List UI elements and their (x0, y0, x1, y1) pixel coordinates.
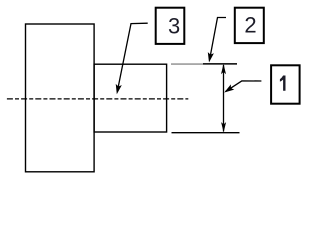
centerline (dash-dot axis) (7, 98, 188, 100)
leader for balloon 3 (118, 23, 148, 90)
leader for balloon 2 (210, 18, 226, 59)
balloon box 3 (156, 8, 185, 44)
leader 2 arrowhead (206, 52, 214, 63)
dimension arrowhead down (221, 122, 226, 132)
bottom extension line (172, 132, 240, 134)
svg-text:2: 2 (244, 13, 256, 38)
large rectangle (part body, left) (26, 24, 95, 172)
balloon box 2 (235, 8, 264, 43)
top extension line gray segment (171, 63, 203, 65)
dimension line (vertical) (223, 65, 225, 132)
leader for balloon 1 (226, 81, 262, 92)
top extension line black segment (203, 63, 237, 65)
dimension arrowhead up (221, 64, 226, 74)
svg-text:3: 3 (168, 13, 180, 38)
small rectangle (boss, right) (94, 64, 167, 132)
balloon label 1 (280, 76, 286, 91)
balloon box 1 (271, 65, 300, 103)
leader 3 arrowhead (114, 84, 122, 95)
leader 1 arrowhead (222, 84, 234, 95)
